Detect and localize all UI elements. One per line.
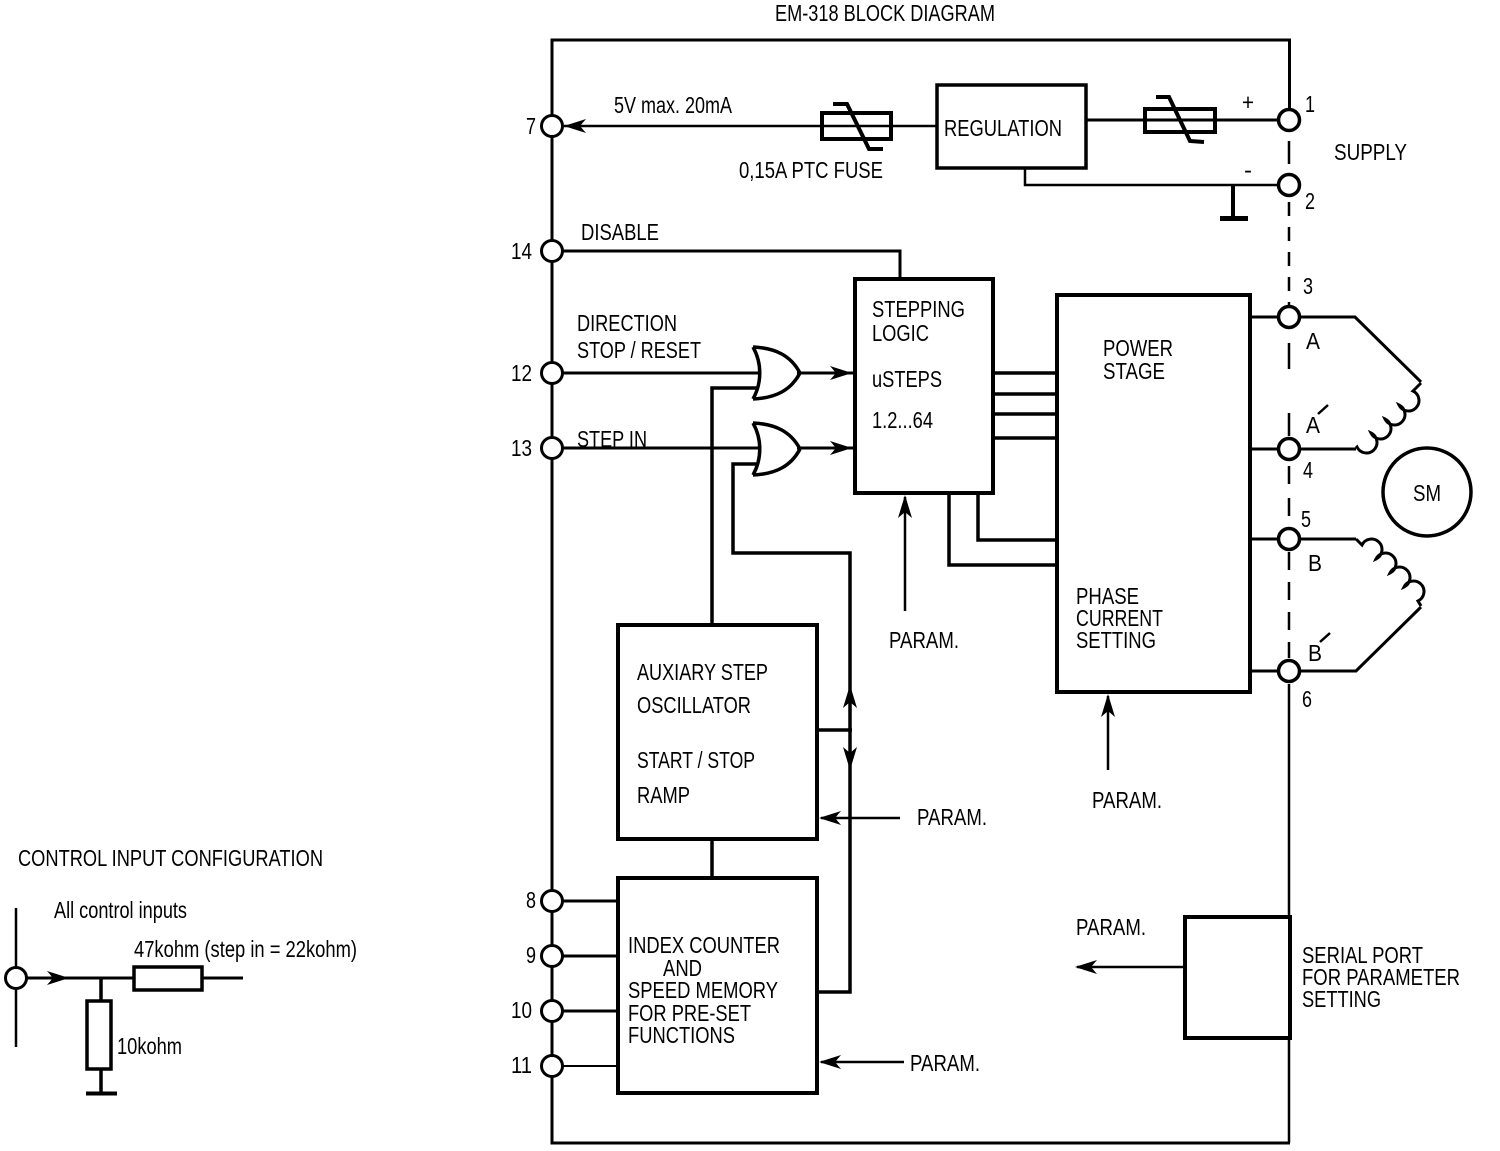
wire PARAM arrow to stepping logic bbox=[904, 497, 907, 611]
wire dashed terminal column 5-6 bbox=[1288, 552, 1291, 658]
terminal 7 bbox=[542, 116, 563, 137]
svg-text:EM-318 BLOCK DIAGRAM: EM-318 BLOCK DIAGRAM bbox=[775, 0, 995, 26]
wire PARAM arrow to power stage bbox=[1107, 696, 1110, 770]
PTC fuse 1 bbox=[822, 113, 891, 139]
arrow down on oscillator line bbox=[843, 747, 857, 770]
terminal 10 bbox=[542, 1001, 563, 1022]
accent mark for B' bbox=[1320, 633, 1330, 642]
wire pin 9 to index counter bbox=[563, 955, 618, 958]
svg-text:A: A bbox=[1306, 412, 1320, 438]
svg-text:DISABLE: DISABLE bbox=[581, 219, 659, 245]
svg-text:11: 11 bbox=[511, 1052, 532, 1078]
svg-text:PARAM.: PARAM. bbox=[889, 627, 959, 653]
svg-text:CONTROL INPUT CONFIGURATION: CONTROL INPUT CONFIGURATION bbox=[18, 845, 323, 871]
svg-text:6: 6 bbox=[1302, 686, 1312, 712]
svg-text:SETTING: SETTING bbox=[1076, 627, 1156, 653]
terminal 2 bbox=[1279, 175, 1300, 196]
svg-text:-: - bbox=[1244, 157, 1252, 183]
ground near terminal 2 bbox=[1231, 185, 1235, 217]
svg-text:STEP IN: STEP IN bbox=[577, 426, 647, 452]
svg-text:AUXIARY STEP: AUXIARY STEP bbox=[637, 659, 768, 685]
terminal 6 bbox=[1279, 661, 1300, 682]
wire 5V supply line to pin 7 bbox=[564, 125, 937, 128]
wire OR1 output to stepping logic bbox=[797, 372, 855, 375]
svg-text:START / STOP: START / STOP bbox=[637, 747, 755, 773]
resistor 47kohm bbox=[134, 967, 202, 990]
svg-text:+: + bbox=[1242, 89, 1254, 115]
regulation box bbox=[937, 85, 1086, 168]
arrow PARAM into aux oscillator bbox=[819, 811, 841, 825]
svg-text:LOGIC: LOGIC bbox=[872, 320, 929, 346]
terminal 13 bbox=[542, 438, 563, 459]
wire power stage to terminal 6 bbox=[1250, 670, 1278, 673]
svg-text:12: 12 bbox=[511, 360, 532, 386]
aux step oscillator box bbox=[618, 625, 817, 839]
wire DISABLE from pin 14 to stepping logic top bbox=[563, 251, 900, 279]
motor winding B bbox=[1300, 538, 1356, 541]
arrow into terminal 7 bbox=[564, 119, 586, 133]
svg-text:B: B bbox=[1308, 640, 1322, 666]
svg-text:1: 1 bbox=[1305, 91, 1315, 117]
svg-text:PARAM.: PARAM. bbox=[917, 804, 987, 830]
ground control input bbox=[86, 1092, 117, 1096]
OR gate U2 bbox=[753, 423, 800, 475]
svg-text:1.2...64: 1.2...64 bbox=[872, 407, 933, 433]
wire power stage to terminal 3 bbox=[1250, 316, 1278, 319]
svg-text:3: 3 bbox=[1303, 273, 1313, 299]
control input: wire to 47k resistor bbox=[27, 977, 134, 980]
stepper motor SM bbox=[1383, 448, 1471, 536]
svg-text:REGULATION: REGULATION bbox=[944, 115, 1062, 141]
svg-text:2: 2 bbox=[1305, 188, 1315, 214]
terminal 5 bbox=[1279, 529, 1300, 550]
wire pin 10 to index counter bbox=[563, 1010, 618, 1013]
wire right border below terminal 6 bbox=[1288, 684, 1291, 1143]
motor winding A bbox=[1300, 317, 1421, 382]
wire regulation bottom to terminal 2 bbox=[1025, 168, 1278, 185]
arrow PARAM out of serial port bbox=[1075, 960, 1097, 974]
wire stepping logic bottom to power stage a bbox=[978, 493, 1057, 540]
wire regulation to fuse2 to terminal 1 bbox=[1086, 119, 1278, 122]
svg-text:47kohm (step in = 22kohm): 47kohm (step in = 22kohm) bbox=[134, 936, 357, 962]
wire power stage to terminal 4 bbox=[1250, 448, 1278, 451]
wire bus stepping logic to power stage 4 bbox=[993, 436, 1057, 440]
wire right border top segment to terminal 1 bbox=[1288, 40, 1291, 111]
arrow PARAM up into power stage bbox=[1101, 694, 1115, 717]
wire OR2 output to stepping logic bbox=[797, 447, 855, 450]
wire dashed terminal column 1-2 bbox=[1288, 141, 1291, 164]
accent mark for A' bbox=[1318, 405, 1328, 414]
svg-text:STAGE: STAGE bbox=[1103, 358, 1165, 384]
svg-text:SUPPLY: SUPPLY bbox=[1334, 139, 1407, 165]
svg-text:RAMP: RAMP bbox=[637, 782, 690, 808]
svg-text:14: 14 bbox=[511, 238, 532, 264]
index counter box bbox=[618, 878, 817, 1093]
arrow PARAM into index counter bbox=[819, 1055, 841, 1069]
arrow PARAM up into stepping logic bbox=[898, 495, 912, 518]
arrow control input bbox=[47, 971, 69, 985]
svg-text:7: 7 bbox=[526, 113, 536, 139]
svg-text:INDEX COUNTER: INDEX COUNTER bbox=[628, 932, 780, 958]
svg-text:0,15A PTC FUSE: 0,15A PTC FUSE bbox=[739, 157, 883, 183]
wire outer border bottom bbox=[551, 1142, 1291, 1145]
control input: input node circle bbox=[15, 908, 18, 1047]
svg-text:FUNCTIONS: FUNCTIONS bbox=[628, 1022, 735, 1048]
svg-text:All control inputs: All control inputs bbox=[54, 897, 187, 923]
wire bus stepping logic to power stage 3 bbox=[993, 412, 1057, 416]
svg-text:5V max. 20mA: 5V max. 20mA bbox=[614, 92, 732, 118]
stepping logic box bbox=[855, 279, 993, 493]
svg-text:STEPPING: STEPPING bbox=[872, 296, 965, 322]
arrow OR1 to stepping logic bbox=[830, 366, 852, 380]
svg-text:PARAM.: PARAM. bbox=[1092, 787, 1162, 813]
wire pin 8 to index counter bbox=[563, 900, 618, 903]
svg-text:DIRECTION: DIRECTION bbox=[577, 310, 677, 336]
wire PARAM arrow to index counter bbox=[821, 1061, 904, 1064]
wire power stage to terminal 5 bbox=[1250, 538, 1278, 541]
svg-text:STOP / RESET: STOP / RESET bbox=[577, 337, 701, 363]
wire OR2 lower input from index counter line bbox=[733, 464, 850, 992]
wire dashed terminal column 2-3 bbox=[1288, 202, 1291, 306]
power stage box bbox=[1057, 295, 1250, 692]
terminal 8 bbox=[542, 891, 563, 912]
svg-text:5: 5 bbox=[1301, 506, 1311, 532]
svg-text:8: 8 bbox=[526, 887, 536, 913]
terminal 1 bbox=[1279, 110, 1300, 131]
terminal 14 bbox=[542, 241, 563, 262]
OR gate U1 bbox=[753, 347, 800, 399]
svg-text:SM: SM bbox=[1413, 480, 1441, 506]
serial port box bbox=[1185, 917, 1290, 1038]
wire oscillator output to OR1 lower input bbox=[712, 388, 757, 625]
svg-text:OSCILLATOR: OSCILLATOR bbox=[637, 692, 751, 718]
svg-text:10: 10 bbox=[511, 997, 532, 1023]
wire dashed terminal column 3-4 bbox=[1288, 343, 1291, 436]
svg-text:A: A bbox=[1306, 328, 1320, 354]
wire dashed terminal column 4-5 bbox=[1288, 466, 1291, 526]
svg-text:SETTING: SETTING bbox=[1302, 986, 1381, 1012]
arrow OR2 to stepping logic bbox=[830, 441, 852, 455]
wire pin 11 to index counter bbox=[563, 1065, 618, 1067]
wire DIRECTION from pin 12 to OR1 bbox=[563, 372, 760, 375]
terminal 11 bbox=[542, 1056, 563, 1077]
wire STEP IN from pin 13 to OR2 bbox=[563, 447, 760, 450]
wire stepping logic bottom to power stage b bbox=[949, 493, 1057, 565]
wire bus stepping logic to power stage 1 bbox=[993, 371, 1057, 375]
wire PARAM arrow from serial port bbox=[1077, 966, 1185, 969]
wire outer border left bbox=[551, 40, 554, 1143]
wire PARAM arrow to aux oscillator bbox=[821, 817, 900, 820]
svg-text:PARAM.: PARAM. bbox=[910, 1050, 980, 1076]
terminal 12 bbox=[542, 363, 563, 384]
svg-text:9: 9 bbox=[526, 942, 536, 968]
terminal 3 bbox=[1279, 307, 1300, 328]
wire junction to 10k resistor bbox=[99, 978, 103, 1001]
wire aux oscillator bottom to index counter bbox=[710, 839, 714, 878]
svg-text:PARAM.: PARAM. bbox=[1076, 914, 1146, 940]
svg-text:10kohm: 10kohm bbox=[117, 1033, 182, 1059]
terminal 4 bbox=[1279, 439, 1300, 460]
wire aux oscillator to vertical line bbox=[817, 728, 852, 732]
terminal 9 bbox=[542, 946, 563, 967]
svg-text:B: B bbox=[1308, 550, 1322, 576]
PTC fuse 2 bbox=[1145, 109, 1215, 132]
svg-text:uSTEPS: uSTEPS bbox=[872, 366, 942, 392]
svg-text:4: 4 bbox=[1303, 457, 1313, 483]
wire bus stepping logic to power stage 2 bbox=[993, 392, 1057, 396]
wire outer border top bbox=[551, 39, 1292, 42]
resistor 10kohm bbox=[87, 1001, 111, 1069]
svg-text:13: 13 bbox=[511, 435, 532, 461]
arrow up on oscillator line bbox=[843, 685, 857, 708]
